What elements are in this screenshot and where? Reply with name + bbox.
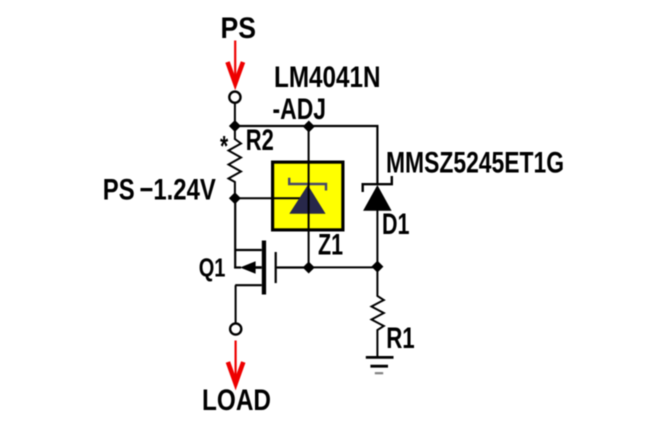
junction PS-1.24V node	[229, 192, 241, 204]
wire top rail	[235, 126, 378, 184]
junction D1 R1 node	[371, 261, 383, 273]
svg-text:PS: PS	[221, 12, 257, 45]
svg-text:-ADJ: -ADJ	[273, 93, 327, 126]
junction top rail at Z1	[303, 121, 315, 133]
wire Q1 drain to LOAD terminal	[235, 285, 237, 323]
wire Q1 gate to bottom rail	[277, 267, 309, 269]
svg-text:Q1: Q1	[199, 253, 226, 283]
diode D1 cathode bar	[363, 176, 392, 192]
junction top-left node	[229, 120, 241, 132]
svg-text:*: *	[220, 131, 229, 163]
resistor R1	[372, 267, 384, 356]
svg-text:PS −1.24V: PS −1.24V	[103, 174, 216, 207]
svg-text:LM4041N: LM4041N	[274, 61, 381, 94]
wire Z1 vertical branch	[308, 126, 310, 268]
wire PS terminal to top rail	[234, 103, 236, 126]
wire D1 anode to bottom node	[376, 210, 378, 267]
wire adj inside box	[271, 197, 309, 199]
resistor R2	[229, 126, 242, 198]
output arrow LOAD	[228, 341, 243, 384]
shunt reference U1 LM4041 body (yellow box)	[273, 162, 343, 230]
wire adj node to Z1	[235, 197, 309, 199]
transistor Q1	[234, 241, 277, 295]
svg-text:MMSZ5245ET1G: MMSZ5245ET1G	[386, 146, 564, 179]
terminal PS	[229, 92, 240, 103]
wire Z1 vertical inside box	[308, 162, 310, 231]
terminal LOAD	[230, 323, 241, 334]
svg-text:LOAD: LOAD	[202, 384, 271, 417]
diode D1 triangle	[363, 185, 392, 211]
svg-text:R1: R1	[386, 322, 415, 355]
svg-text:Z1: Z1	[318, 229, 343, 262]
wire node to Q1 source	[234, 198, 236, 268]
zener Z1 triangle	[289, 185, 325, 214]
ground	[366, 357, 394, 373]
svg-text:R2: R2	[246, 124, 274, 157]
wire bottom rail	[277, 266, 378, 268]
junction Z1 bottom node	[303, 262, 315, 274]
zener Z1 cathode bar	[289, 178, 326, 191]
input arrow PS	[228, 41, 244, 84]
svg-text:D1: D1	[382, 208, 410, 241]
